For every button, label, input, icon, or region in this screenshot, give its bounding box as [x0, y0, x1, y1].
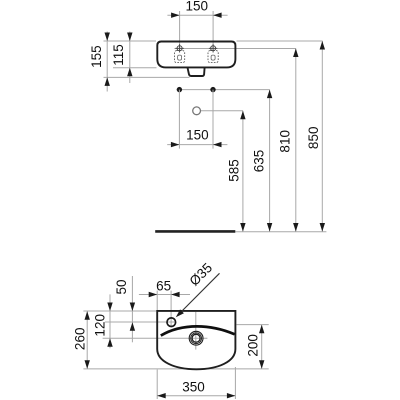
floor line: [155, 230, 235, 233]
svg-text:635: 635: [252, 150, 267, 173]
dimension 150 top: left extension: [179, 11, 181, 51]
dimension 150 bottom: right extension: [212, 90, 214, 149]
svg-text:850: 850: [306, 127, 321, 150]
wall holes centre line to 635: [177, 89, 270, 91]
svg-text:115: 115: [111, 44, 126, 66]
dimension 120: top arrow: [107, 303, 112, 312]
svg-text:150: 150: [186, 0, 209, 14]
svg-text:260: 260: [73, 328, 88, 351]
bracket left: cross ticks: [175, 44, 183, 52]
dimension 810: top arrow: [293, 49, 298, 58]
dimension 115: line: [129, 32, 131, 84]
dimension 155: line: [106, 32, 108, 92]
plan view: extension line 200 top: [237, 324, 269, 326]
dimension 120: line: [109, 294, 111, 348]
dimension 150 bottom: line: [167, 144, 227, 146]
dimension 120: bottom arrow: [107, 338, 112, 347]
svg-text:585: 585: [227, 159, 242, 182]
drain horizontal centre line: [103, 337, 208, 339]
svg-text:65: 65: [156, 278, 171, 293]
dimension 150 top: left arrow: [171, 13, 180, 18]
tap hole vertical centre line: [170, 291, 172, 327]
front view: extension line rim top right to 850: [237, 40, 323, 42]
dimension 585: line: [242, 111, 244, 232]
dimension 150 bottom: right arrow: [213, 142, 222, 147]
bracket right: slot: [211, 55, 215, 60]
bracket left: slot: [178, 55, 182, 60]
drain flange inner: [191, 333, 202, 344]
svg-text:150: 150: [186, 127, 209, 142]
dimension 350: left extension: [156, 370, 158, 400]
drain vertical centre line: [195, 312, 197, 350]
bracket right: cross ticks: [209, 44, 217, 52]
dimension 350: right arrow: [227, 393, 236, 398]
plan view: bottom tangent extension line: [83, 368, 268, 370]
dimension 65: line: [139, 294, 190, 296]
diameter leader line: [178, 273, 220, 315]
svg-text:120: 120: [93, 314, 108, 337]
dimension 350: line: [157, 395, 235, 397]
dimension 810: bottom arrow: [293, 223, 298, 232]
drain waste inner circle: [192, 334, 200, 342]
bracket right: screw circle: [211, 46, 216, 51]
dimension 200: bottom arrow: [259, 360, 264, 369]
tap hole horizontal centre line: [105, 321, 176, 323]
dimension 150 bottom: left arrow: [171, 142, 180, 147]
dimension 115: top arrow: [127, 33, 132, 42]
front view: bracket centre line to 810: [174, 48, 296, 50]
dimension 350: left arrow: [157, 393, 166, 398]
bracket left: dashed body: [175, 51, 185, 63]
dimension 155: top arrow: [105, 33, 110, 42]
dimension 150 top: right arrow: [213, 13, 222, 18]
trap outlet: [188, 68, 205, 76]
plan view: extension line top left: [83, 310, 156, 312]
bracket left: screw circle: [177, 46, 182, 51]
svg-text:155: 155: [89, 45, 104, 68]
wall hole right dot: [210, 87, 215, 92]
dimension 155: bottom arrow: [105, 77, 110, 86]
dimension 585: top arrow: [240, 111, 245, 120]
bracket right: dashed body: [208, 51, 218, 63]
dimension 150 bottom: left extension: [178, 90, 180, 149]
front view: extension line trap bottom: [104, 76, 190, 78]
dimension 65: left extension: [156, 291, 158, 310]
dimension 150 top: line: [167, 14, 227, 16]
dimension 635: line: [269, 90, 271, 232]
dimension 850: line: [321, 41, 323, 232]
svg-text:350: 350: [182, 379, 205, 394]
dimension 850: top arrow: [320, 41, 325, 50]
drain flange outer: [189, 331, 203, 345]
svg-text:810: 810: [278, 130, 293, 153]
dimension 200: top arrow: [259, 325, 264, 334]
tap hole circle: [167, 318, 176, 327]
dimension 50: top arrow: [130, 303, 135, 312]
diameter leader arrow: [176, 309, 184, 317]
svg-text:200: 200: [245, 334, 260, 357]
dimension 50: bottom arrow: [130, 322, 135, 331]
basin front view outline: [157, 42, 235, 68]
dimension 350: right extension: [234, 367, 236, 399]
dimension 635: top arrow: [267, 90, 272, 99]
dimension 585: bottom arrow: [240, 223, 245, 232]
dimension 150 top: right extension: [212, 11, 214, 51]
dimension 50: line: [131, 276, 133, 342]
front view: extension line basin bottom left: [113, 67, 157, 69]
dimension 260: line: [86, 311, 88, 369]
svg-text:50: 50: [114, 279, 129, 294]
wall hole left dot: [177, 87, 182, 92]
floor extension line thin: [235, 231, 326, 233]
basin plan view outline: [157, 311, 235, 369]
dimension 200: line: [261, 325, 263, 369]
front view: extension line rim top left: [104, 40, 157, 42]
dimension 260: bottom arrow: [85, 360, 90, 369]
dimension 810: line: [295, 49, 297, 232]
dimension 65: left arrow: [149, 292, 158, 297]
dimension 635: bottom arrow: [267, 223, 272, 232]
drain outlet centre line to 585: [201, 110, 244, 112]
dimension 850: bottom arrow: [320, 223, 325, 232]
dimension 65: right arrow: [171, 292, 180, 297]
bowl front edge wave: [161, 326, 235, 335]
drain outlet circle: [193, 107, 201, 115]
dimension 115: bottom arrow: [127, 68, 132, 77]
dimension 260: top arrow: [85, 311, 90, 320]
